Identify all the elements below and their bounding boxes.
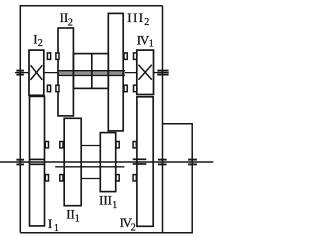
clutch teeth F (left face of gear II1) (60, 142, 63, 182)
label III1 (99, 193, 117, 211)
bearing upper-left wall (16, 71, 24, 75)
bearing extension wall (188, 160, 197, 165)
upper shaft (input shaft, y=72.6) (15, 72, 30, 74)
hub bars at gear IV2 (133, 159, 147, 164)
gear I1 (30, 96, 45, 226)
label I2 (33, 32, 43, 49)
clutch teeth A (right of box I2) (47, 53, 50, 92)
label I1 (48, 216, 59, 234)
sliding gear block on upper shaft (73, 54, 108, 89)
clutch teeth H (left face of gear IV2) (133, 142, 136, 182)
svg-text:II: II (66, 207, 75, 222)
bearing lower-right wall (158, 160, 167, 165)
label III2 (127, 10, 149, 28)
bearing lower-left wall (16, 160, 24, 165)
gear II2 (58, 28, 73, 116)
label II1 (66, 207, 80, 225)
housing frame (gearbox casing, L-shape with right extension) (20, 6, 192, 233)
lower block connector rail (55, 166, 124, 168)
lower block web lower (81, 178, 100, 180)
label IV2 (120, 215, 136, 234)
svg-text:1: 1 (149, 38, 154, 49)
clutch box I2 (29, 50, 44, 95)
clutch teeth B (left face of gear II2) (56, 53, 59, 92)
clutch teeth D (left face of box IV1) (134, 53, 137, 92)
label II2 (60, 10, 73, 28)
upper shaft spline band gray core (58, 71, 125, 75)
svg-text:I: I (48, 216, 52, 231)
clutch teeth G (right face of gear III1) (116, 142, 119, 182)
svg-text:1: 1 (75, 214, 80, 225)
gear III1 (100, 133, 115, 192)
gear III2 (108, 13, 123, 130)
clutch box IV1 (137, 50, 154, 94)
clutch teeth C (right face of gear III2) (124, 53, 127, 92)
svg-text:1: 1 (112, 200, 117, 211)
upper shaft spline band (sliding-block hub lines) (58, 70, 125, 72)
lower block web upper (81, 145, 100, 147)
svg-text:III: III (127, 10, 144, 25)
lower shaft (output shaft, y=162.0) (0, 161, 213, 163)
clutch teeth E (right face of gear I1) (45, 142, 48, 182)
svg-text:1: 1 (54, 223, 59, 234)
svg-text:2: 2 (144, 17, 149, 28)
gear II1 (64, 118, 81, 205)
label IV1 (137, 32, 154, 49)
svg-text:2: 2 (68, 17, 73, 28)
svg-text:2: 2 (38, 38, 43, 49)
svg-text:2: 2 (131, 223, 136, 234)
gear IV2 (137, 97, 153, 227)
hub bars inside gear I1 (30, 159, 45, 164)
svg-text:III: III (99, 193, 112, 208)
bearing upper-right wall (157, 71, 168, 75)
